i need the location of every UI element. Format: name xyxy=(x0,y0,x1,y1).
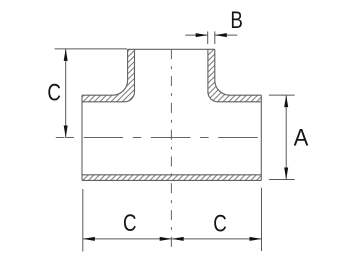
svg-text:C: C xyxy=(47,79,61,106)
svg-text:C: C xyxy=(123,210,137,237)
svg-text:B: B xyxy=(230,7,242,34)
svg-text:A: A xyxy=(294,124,309,151)
svg-text:C: C xyxy=(213,210,227,237)
